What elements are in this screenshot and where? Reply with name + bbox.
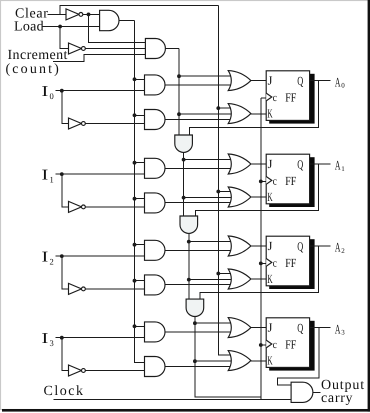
svg-text:c: c <box>273 175 277 187</box>
junction dot I0 <box>60 89 64 93</box>
wire I0 to AND gate <box>56 90 145 92</box>
wire Q3 feedback to output carry AND <box>278 327 320 385</box>
wire count-chain tap to K OR row 1 <box>184 197 231 199</box>
wire load-enable tap to K AND row 3 <box>135 361 145 363</box>
wire chain AND 2 output <box>194 317 196 324</box>
wire Clear-not down to AND G2 top input <box>89 14 146 42</box>
wire output carry <box>313 391 320 393</box>
junction dot chain row 2 J <box>187 240 191 244</box>
svg-text:K: K <box>267 353 272 367</box>
wire Load input to AND G1 <box>42 26 100 28</box>
AND gate load*I3-not (K term) <box>145 357 166 377</box>
wire Clear tap to K OR row 0 <box>218 107 231 109</box>
svg-text:J: J <box>268 321 273 335</box>
AND gate load*I0-not (K term) <box>145 110 166 130</box>
wire Clear tap to K OR row 1 <box>218 191 231 193</box>
wire count-chain tap to K OR row 0 <box>179 113 231 115</box>
svg-text:FF: FF <box>285 91 296 105</box>
junction dot Clear rail row 0 <box>216 106 220 110</box>
wire K OR output to FF K input <box>251 278 266 280</box>
junction dot load-enable row 0 K <box>133 113 137 117</box>
wire load-enable tap to J AND row 1 <box>135 162 145 164</box>
wire count chain row 1 <box>183 160 185 216</box>
carry AND gate (chain) 0 <box>175 135 193 152</box>
svg-text:Q: Q <box>297 239 303 253</box>
wire Q0 output <box>310 79 331 81</box>
svg-text:Q: Q <box>297 74 303 88</box>
wire G1 output to load-enable rail <box>119 20 135 22</box>
AND gate load*I3 (J term) <box>145 322 166 342</box>
wire Q2 output <box>310 245 331 247</box>
AND gate G1 (Clear-not AND Load) <box>100 10 119 30</box>
wire clock stub FF2 <box>261 262 266 264</box>
flip-flop FF1 body <box>266 154 309 204</box>
wire Q1 output <box>310 163 331 165</box>
wire inverter output to AND G1 <box>83 13 100 15</box>
svg-text:K: K <box>267 106 272 120</box>
wire load-enable tap to J AND row 0 <box>135 78 145 80</box>
junction dot load-enable row 3 J <box>133 324 137 328</box>
junction dot chain row 2 K <box>187 278 191 282</box>
wire clock stub FF1 <box>261 180 266 182</box>
wire K AND output to OR row 2 <box>165 284 231 286</box>
svg-text:2: 2 <box>341 247 345 255</box>
wire count-chain tap to K OR row 3 <box>195 360 231 362</box>
wire Clear input <box>48 13 67 15</box>
AND gate load*I0 (J term) <box>145 75 166 95</box>
OR gate J row 0 <box>228 71 251 91</box>
wire Clear branch up to top rail <box>60 6 218 15</box>
wire J AND output to OR row 3 <box>165 331 231 333</box>
junction dot chain row 0 K <box>177 112 181 116</box>
svg-text:(count): (count) <box>6 62 61 77</box>
flip-flop FF0 shadow <box>269 74 314 124</box>
wire chain AND 1 output <box>188 233 190 241</box>
svg-text:J: J <box>268 239 273 253</box>
svg-text:0: 0 <box>341 82 345 90</box>
wire count chain row 0 <box>178 49 180 136</box>
wire I3-not to K AND gate <box>85 370 144 372</box>
wire I0 down to inverter <box>62 91 69 124</box>
svg-text:carry: carry <box>321 391 353 406</box>
wire Q1 feedback to carry AND <box>195 164 318 216</box>
junction dot load-enable row 2 J <box>133 243 137 247</box>
wire Load-not to AND G2 middle input <box>85 48 145 50</box>
wire I2 down to inverter <box>62 256 69 289</box>
wire Q0 feedback to carry AND <box>190 80 319 135</box>
wire Clear vertical rail <box>218 6 231 356</box>
wire count chain row 2 <box>188 242 190 300</box>
wire count-chain tap to J OR row 3 <box>195 322 231 324</box>
AND gate load*I2 (J term) <box>145 240 165 260</box>
wire count-chain tap to J OR row 1 <box>184 159 231 161</box>
svg-text:FF: FF <box>285 338 296 352</box>
svg-text:c: c <box>273 339 277 351</box>
junction dot load-enable row 0 J <box>133 77 137 81</box>
AND gate load*I1-not (K term) <box>145 193 166 213</box>
AND gate load*I1 (J term) <box>145 158 165 178</box>
clock wedge FF3 <box>266 340 272 348</box>
svg-text:J: J <box>268 74 273 88</box>
wire K OR output to FF K input <box>251 196 266 198</box>
wire count-chain tap to J OR row 0 <box>179 75 231 77</box>
OR gate J row 3 <box>228 318 251 338</box>
svg-text:I: I <box>42 168 49 184</box>
OR gate J row 1 <box>228 154 251 174</box>
OR gate K row 2 <box>228 269 251 289</box>
wire J AND output to OR row 0 <box>165 84 231 86</box>
inverter on I1 <box>69 201 82 212</box>
OR gate K row 3 <box>228 351 251 371</box>
wire I2 to AND gate <box>56 255 145 257</box>
junction dot clock rail FF1 <box>259 180 263 184</box>
flip-flop FF0 body <box>266 71 309 121</box>
carry AND gate (chain) 1 <box>180 216 198 233</box>
svg-text:Q: Q <box>297 321 303 335</box>
wire Clock input rail <box>54 398 292 400</box>
carry AND gate (chain) 2 <box>186 299 204 316</box>
inverter on I0 <box>69 118 82 129</box>
svg-text:I: I <box>42 250 49 266</box>
wire load-enable vertical rail <box>135 21 145 363</box>
svg-text:Increment: Increment <box>8 48 68 63</box>
AND gate output carry <box>291 382 313 402</box>
wire J OR output to FF J input <box>251 327 266 329</box>
wire Clear tap to K OR row 2 <box>218 273 231 275</box>
junction dot clock rail FF3 <box>259 343 263 347</box>
wire I1 to AND gate <box>56 173 145 175</box>
svg-text:A: A <box>335 240 341 255</box>
svg-text:c: c <box>273 92 277 104</box>
junction dot chain row 3 J <box>193 321 197 325</box>
svg-text:Q: Q <box>297 157 303 171</box>
svg-text:FF: FF <box>285 174 296 188</box>
OR gate K row 1 <box>228 187 251 207</box>
wire count-chain tap to J OR row 2 <box>189 241 231 243</box>
junction dot load-enable row 1 K <box>133 197 137 201</box>
wire I1 down to inverter <box>62 174 69 207</box>
junction dot I1 <box>60 172 64 176</box>
wire K OR output to FF K input <box>251 113 266 115</box>
wire I0-not to K AND gate <box>85 123 144 125</box>
wire Load down to Load inverter <box>60 27 68 49</box>
junction dot Clear-not <box>87 13 91 17</box>
wire chain AND 0 output <box>183 152 185 159</box>
wire J OR output to FF J input <box>251 80 266 82</box>
wire Q2 feedback to carry AND <box>200 246 319 299</box>
flip-flop FF3 body <box>266 318 309 368</box>
clock wedge FF0 <box>266 93 272 101</box>
inverter on Load <box>69 43 82 54</box>
wire J OR output to FF J input <box>251 245 266 247</box>
flip-flop FF3 shadow <box>269 321 314 371</box>
svg-text:I: I <box>42 331 49 347</box>
wire K OR output to FF K input <box>251 360 266 362</box>
junction dot I2 <box>60 254 64 258</box>
wire I2-not to K AND gate <box>85 288 144 290</box>
svg-text:2: 2 <box>50 256 54 266</box>
svg-text:Clock: Clock <box>44 384 85 399</box>
wire clock vertical rail <box>260 98 262 399</box>
flip-flop FF2 body <box>266 236 309 286</box>
svg-text:FF: FF <box>285 256 296 270</box>
wire load-enable tap to K AND row 0 <box>135 114 145 116</box>
wire count-chain tap to K OR row 2 <box>189 279 231 281</box>
junction dot load-enable row 2 K <box>133 279 137 283</box>
wire K AND output to OR row 1 <box>165 202 231 204</box>
junction dot chain row 3 K <box>193 359 197 363</box>
wire J OR output to FF J input <box>251 163 266 165</box>
wire clock stub FF3 <box>261 344 266 346</box>
wire Clear tap to K OR row 3 <box>218 354 231 356</box>
wire Increment to AND G2 bottom input <box>53 55 145 62</box>
wire G2 output to count chain <box>165 48 179 50</box>
clock wedge FF2 <box>266 259 272 267</box>
wire load-enable tap to K AND row 2 <box>135 280 145 282</box>
AND gate G2 (count enable) <box>145 39 165 59</box>
svg-text:0: 0 <box>50 91 54 101</box>
AND gate load*I2-not (K term) <box>145 275 166 295</box>
wire count chain row 3 to bottom <box>195 323 261 397</box>
flip-flop FF1 shadow <box>269 157 314 207</box>
svg-text:K: K <box>267 190 272 204</box>
svg-text:Load: Load <box>14 20 44 35</box>
svg-text:c: c <box>273 257 277 269</box>
svg-text:1: 1 <box>50 174 54 184</box>
junction dot chain row 1 K <box>182 196 186 200</box>
inverter on I3 <box>69 365 82 376</box>
junction dot chain row 1 J <box>182 158 186 162</box>
junction dot load-enable row 1 J <box>133 161 137 165</box>
wire J AND output to OR row 2 <box>165 249 231 251</box>
OR gate K row 0 <box>228 104 251 124</box>
flip-flop FF2 shadow <box>269 239 314 289</box>
wire I3 to AND gate <box>56 337 145 339</box>
wire I3 down to inverter <box>62 338 69 371</box>
junction dot clock rail FF2 <box>259 262 263 266</box>
junction dot Clear rail row 2 <box>216 272 220 276</box>
wire load-enable tap to K AND row 1 <box>135 198 145 200</box>
junction dot Clear rail row 1 <box>216 190 220 194</box>
svg-text:I: I <box>42 84 49 100</box>
junction dot Load <box>58 25 62 29</box>
wire load-enable tap to J AND row 3 <box>135 325 145 327</box>
wire J AND output to OR row 1 <box>165 167 231 169</box>
svg-text:K: K <box>267 272 272 286</box>
inverter on Clear <box>66 9 79 20</box>
wire K AND output to OR row 0 <box>165 118 231 120</box>
clock wedge FF1 <box>266 177 272 185</box>
wire Q3 output <box>310 326 331 328</box>
svg-text:J: J <box>268 157 273 171</box>
junction dot I3 <box>60 336 64 340</box>
svg-text:1: 1 <box>341 165 345 173</box>
junction dot chain row 0 J <box>177 74 181 78</box>
svg-text:3: 3 <box>50 338 54 348</box>
wire load-enable tap to J AND row 2 <box>135 244 145 246</box>
OR gate J row 2 <box>228 236 251 256</box>
svg-text:3: 3 <box>341 329 345 337</box>
svg-text:A: A <box>335 158 341 173</box>
wire clock stub FF0 <box>261 97 266 99</box>
inverter on I2 <box>69 283 82 294</box>
svg-text:A: A <box>335 321 341 336</box>
svg-text:A: A <box>335 74 341 89</box>
wire I1-not to K AND gate <box>85 206 144 208</box>
wire K AND output to OR row 3 <box>165 365 231 367</box>
